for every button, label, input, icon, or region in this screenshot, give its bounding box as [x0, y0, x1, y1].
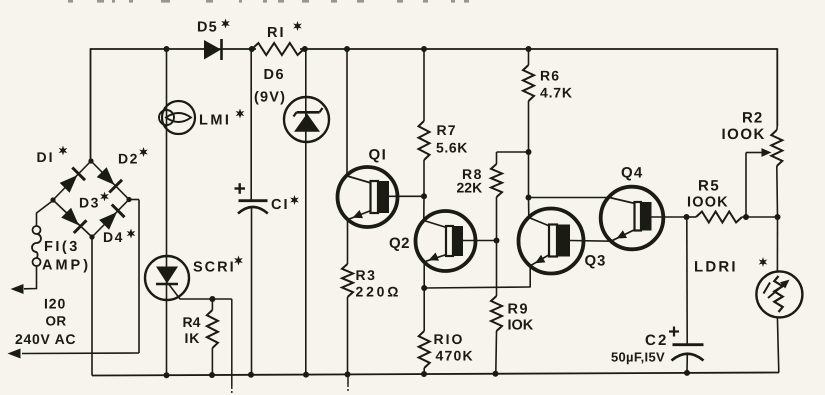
svg-text:(9V): (9V) [254, 90, 286, 106]
node R5 wire at right rail [775, 214, 781, 220]
wire bridge side D1 [53, 161, 91, 200]
wire stub below rail from SCR gate [231, 299, 233, 386]
svg-text:D6: D6 [264, 67, 286, 83]
svg-text:RI: RI [267, 25, 286, 41]
svg-text:RIO: RIO [434, 331, 465, 347]
svg-text:QI: QI [369, 147, 388, 164]
svg-text:IOOK: IOOK [687, 195, 729, 211]
svg-text:R6: R6 [540, 68, 560, 84]
node bridge top corner [88, 158, 93, 163]
star of R1 [293, 21, 302, 31]
svg-text:D2: D2 [118, 151, 139, 167]
wire top supply rail left segment [91, 48, 257, 50]
wire C2 bottom lead [686, 354, 688, 373]
svg-text:R5: R5 [698, 178, 720, 195]
wire Q2 emitter [423, 262, 425, 288]
wire C1 column [250, 49, 252, 200]
node Q2 emitter / R10 top [421, 285, 427, 291]
node bottom rail at C2 wire [684, 370, 690, 376]
star of D2 [139, 147, 148, 157]
zener diode D6 [284, 97, 329, 142]
svg-text:R2: R2 [742, 110, 763, 127]
svg-text:Q2: Q2 [389, 235, 410, 252]
star of SCR1 [234, 256, 243, 266]
wire LDR1 to bottom rail [777, 317, 778, 372]
svg-text:22K: 22K [457, 180, 483, 196]
wire collector node to Q4 [529, 197, 610, 199]
node bottom rail at D6 wire [303, 372, 309, 378]
resistor R7 [419, 121, 430, 160]
node R5 right / wiper [743, 214, 749, 220]
wire Q2 base lead [463, 240, 497, 242]
lamp LM1 [162, 101, 195, 134]
star of D1 [59, 146, 68, 156]
star of LDR1 [759, 257, 768, 267]
wiper arrow of R2 [746, 152, 762, 154]
plus sign of C1 [235, 187, 246, 189]
wire Q3 base lead [570, 240, 611, 243]
svg-text:FI(3: FI(3 [44, 239, 80, 255]
svg-text:LMI: LMI [199, 113, 231, 129]
svg-text:R3: R3 [356, 267, 377, 283]
wire Q2 base node to R9 [496, 241, 498, 297]
star of D5 [221, 19, 230, 29]
node bridge right corner [126, 197, 131, 202]
svg-text:IOOK: IOOK [722, 126, 766, 143]
svg-text:I20: I20 [44, 296, 66, 312]
resistor R1 [252, 43, 304, 55]
node top rail at R6 wire [526, 46, 532, 52]
wire collector node to Q3 [528, 198, 530, 218]
resistor R6 [523, 65, 534, 101]
svg-text:Q3: Q3 [585, 253, 607, 270]
svg-text:Q4: Q4 [621, 165, 643, 182]
wire Q4 base lead [652, 216, 687, 218]
star of C1 [290, 195, 299, 205]
wire top supply rail right segment [300, 48, 777, 50]
node top rail at D6 wire [302, 46, 308, 52]
wire R7 to Q1 base node [423, 160, 425, 196]
svg-text:C2: C2 [645, 332, 669, 349]
arrow AC lower terminal [8, 349, 21, 359]
wire AC lower lead [22, 352, 139, 355]
node bottom rail at C1 wire [248, 372, 254, 378]
photoresistor LDR1 [756, 271, 802, 317]
fuse F1 [33, 226, 41, 234]
wire Q3 emitter to emitter bus [529, 266, 531, 288]
transistor Q1 [338, 167, 398, 227]
node bottom rail at R10 wire [421, 371, 427, 377]
svg-text:DI: DI [37, 149, 55, 165]
wire R8 to Q2 base node [496, 197, 498, 241]
node bottom rail at R9 wire [493, 371, 499, 377]
wire R6 to collector node [528, 101, 530, 198]
wire R9 to bottom rail [495, 331, 498, 374]
wire R2 wiper to R5 node [745, 153, 747, 218]
plus sign of C2 [669, 330, 679, 332]
wire top rail to R7 [423, 49, 425, 121]
wire fuse to AC upper lead [24, 266, 37, 289]
resistor R3 [342, 264, 353, 297]
wire Q1 emitter to R3 [347, 220, 349, 265]
diode D3 [61, 208, 79, 226]
wire top rail to R6 [528, 49, 530, 65]
node bridge left corner [50, 197, 55, 202]
wire bridge side D3 [53, 200, 92, 237]
wire D6 column [305, 49, 307, 375]
transistor Q4 [601, 187, 664, 250]
svg-text:LDRI: LDRI [694, 259, 738, 276]
svg-text:R7: R7 [437, 122, 457, 138]
svg-text:OR: OR [46, 314, 67, 329]
wire LM1-SCR column [166, 49, 168, 375]
wire right rail to LDR1 [776, 217, 778, 272]
wire emitter bus to Q3 [424, 287, 530, 288]
svg-text:470K: 470K [436, 348, 474, 364]
svg-text:220Ω: 220Ω [356, 284, 402, 300]
wire R8 top branch [497, 151, 529, 153]
wire R3 to bottom rail [347, 297, 349, 374]
node bottom rail at SCR wire [164, 372, 170, 378]
resistor R5 [696, 212, 742, 223]
svg-text:R9: R9 [508, 302, 530, 318]
node R6 bottom / R8 branch [526, 149, 532, 155]
wire R5 left lead [687, 216, 697, 218]
wire C2 top lead [686, 217, 688, 344]
node Q1 base / R7 bottom [421, 193, 427, 199]
svg-text:R4: R4 [183, 314, 201, 330]
resistor R10 [423, 288, 425, 331]
star of D3 [100, 192, 109, 202]
svg-text:IOK: IOK [508, 318, 534, 334]
node top rail at Q1 wire [344, 46, 350, 52]
node bridge bottom corner [89, 234, 94, 239]
capacitor C2 [673, 343, 704, 346]
node Q3-Q4 collector junction [526, 195, 532, 201]
node Q4 base / R5 / C2 [684, 214, 690, 220]
svg-text:SCRI: SCRI [193, 260, 236, 276]
transistor Q2 [416, 211, 476, 271]
transistor Q3 [519, 209, 584, 274]
wire Q1 base lead [389, 195, 424, 197]
capacitor C1 [239, 199, 268, 202]
svg-text:D5: D5 [197, 20, 218, 36]
wire bridge side D2 [91, 161, 129, 200]
thyristor SCR1 [145, 256, 189, 300]
wire stub below rail from R3 branch [347, 374, 349, 384]
wire bottom ground rail [92, 373, 779, 376]
resistor R9 [491, 296, 502, 331]
node top rail at R7 wire [421, 46, 427, 52]
wire bridge right corner to AC line [129, 199, 139, 201]
diode D1 [60, 175, 78, 193]
resistor R4 [211, 299, 213, 310]
node bottom rail at R4 wire [209, 372, 215, 378]
node SCR1 gate / R4 top [209, 296, 215, 302]
node top rail at LM1 wire [164, 46, 170, 52]
resistor R2 [776, 126, 779, 130]
svg-text:240V AC: 240V AC [15, 331, 76, 347]
svg-text:IK: IK [185, 330, 201, 346]
node top rail at C1 wire [249, 46, 255, 52]
star of D4 [127, 229, 136, 239]
diode D4 [99, 212, 117, 230]
wire R5 right lead [742, 216, 778, 218]
svg-text:50µF,I5V: 50µF,I5V [611, 350, 665, 365]
wire bridge left corner to fuse [37, 201, 54, 227]
arrow AC upper terminal [11, 284, 24, 294]
svg-text:D3: D3 [79, 195, 100, 211]
resistor R8 [491, 164, 502, 197]
star of LM1 [236, 109, 245, 119]
wire top rail to Q1 collector [346, 49, 348, 176]
scan-cut text fragments at top edge [68, 0, 73, 3]
wire SCR1 gate [169, 285, 232, 300]
svg-text:AMP): AMP) [42, 258, 91, 274]
svg-text:CI: CI [271, 197, 290, 213]
diode D2 [97, 167, 115, 185]
wire bridge side D4 [92, 200, 129, 238]
svg-text:D4: D4 [103, 229, 124, 245]
node bottom rail at R3 wire [345, 371, 351, 377]
svg-text:4.7K: 4.7K [540, 85, 573, 101]
wire Q1 base node to Q2 collector [423, 196, 425, 220]
svg-text:5.6K: 5.6K [436, 140, 468, 156]
diode D5 [204, 40, 221, 60]
node Q2 base divider [494, 238, 500, 244]
